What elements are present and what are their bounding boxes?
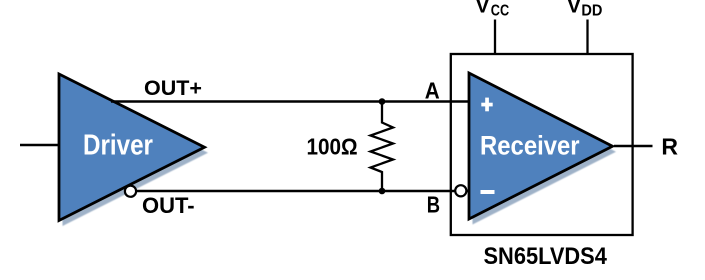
driver amplifier U1 [59, 74, 208, 226]
power label VCC [476, 0, 510, 20]
wire OUT+ (net A) [111, 100, 469, 102]
svg-text:100Ω: 100Ω [307, 133, 358, 159]
svg-text:SN65LVDS4: SN65LVDS4 [484, 242, 608, 269]
svg-text:R: R [661, 133, 678, 159]
svg-text:DD: DD [581, 2, 602, 20]
receiver IC box SN65LVDS4 [451, 54, 633, 235]
svg-text:B: B [427, 193, 440, 218]
svg-text:CC: CC [491, 2, 509, 19]
minus marker (inverting input) [481, 190, 495, 194]
driver input wire [20, 144, 59, 146]
wire OUT- (net B) [131, 190, 470, 192]
junction node B [379, 188, 386, 195]
junction node A [379, 98, 386, 105]
resistor RT 100 ohm [371, 102, 394, 192]
inversion bubble at receiver B input [455, 185, 466, 196]
svg-text:A: A [425, 78, 440, 104]
plus marker (non-inverting input) [481, 98, 492, 112]
power pin wire VDD [586, 20, 588, 56]
svg-text:Receiver: Receiver [480, 131, 580, 161]
svg-text:V: V [567, 0, 581, 18]
power label VDD [567, 0, 603, 19]
svg-text:Driver: Driver [83, 129, 153, 162]
svg-text:OUT+: OUT+ [144, 76, 202, 100]
receiver amplifier U2 [469, 73, 616, 225]
svg-text:V: V [476, 0, 490, 18]
inversion bubble at driver OUT- [125, 186, 136, 197]
output wire R [614, 145, 653, 147]
power pin wire VCC [494, 20, 496, 56]
svg-text:OUT-: OUT- [142, 193, 195, 218]
